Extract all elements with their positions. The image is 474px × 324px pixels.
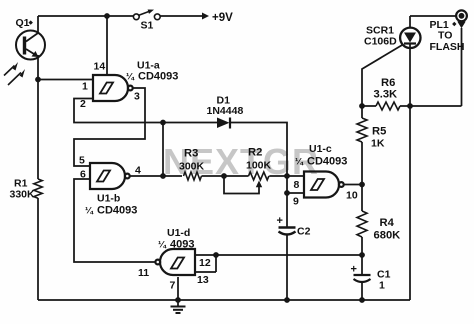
svg-text:11: 11 — [138, 267, 149, 279]
svg-text:1N4448: 1N4448 — [207, 105, 244, 117]
svg-text:¼: ¼ — [295, 157, 304, 168]
svg-text:3: 3 — [134, 91, 140, 103]
svg-text:R4: R4 — [380, 217, 395, 229]
svg-text:+9V: +9V — [212, 12, 233, 24]
svg-text:4093: 4093 — [170, 239, 194, 251]
svg-text:¼: ¼ — [158, 240, 167, 251]
svg-text:R3: R3 — [184, 148, 198, 160]
svg-text:9: 9 — [293, 196, 299, 208]
svg-text:1K: 1K — [371, 138, 385, 150]
svg-text:+: + — [277, 215, 283, 227]
svg-text:¼: ¼ — [126, 72, 135, 83]
svg-text:300K: 300K — [179, 161, 205, 173]
svg-text:14: 14 — [94, 61, 106, 73]
svg-text:TO: TO — [438, 30, 452, 42]
svg-text:6: 6 — [80, 169, 86, 181]
svg-text:+: + — [351, 264, 357, 276]
svg-text:330K: 330K — [10, 189, 36, 201]
svg-text:CD4093: CD4093 — [307, 156, 347, 168]
svg-text:U1-b: U1-b — [97, 193, 120, 205]
svg-text:¼: ¼ — [85, 206, 94, 217]
svg-text:100K: 100K — [246, 160, 272, 172]
svg-text:C2: C2 — [297, 226, 311, 238]
svg-text:12: 12 — [199, 257, 211, 269]
svg-text:CD4093: CD4093 — [138, 71, 178, 83]
svg-text:3.3K: 3.3K — [374, 89, 398, 101]
svg-text:1: 1 — [82, 81, 88, 93]
svg-text:U1-c: U1-c — [309, 143, 332, 155]
svg-text:5: 5 — [79, 155, 85, 167]
svg-text:R6: R6 — [381, 77, 395, 89]
svg-text:7: 7 — [170, 280, 176, 292]
svg-text:13: 13 — [197, 274, 209, 286]
svg-text:U1-d: U1-d — [167, 227, 190, 239]
svg-text:R5: R5 — [372, 126, 386, 138]
svg-text:S1: S1 — [141, 20, 154, 32]
svg-text:C106D: C106D — [364, 36, 397, 48]
svg-text:4: 4 — [135, 165, 141, 177]
svg-text:1: 1 — [379, 280, 385, 292]
svg-text:Q1: Q1 — [16, 17, 30, 29]
svg-text:2: 2 — [80, 98, 86, 110]
svg-text:10: 10 — [346, 190, 358, 202]
svg-text:R2: R2 — [248, 147, 262, 159]
svg-text:680K: 680K — [374, 230, 401, 242]
svg-text:FLASH: FLASH — [430, 41, 465, 53]
svg-text:8: 8 — [294, 179, 300, 191]
svg-text:CD4093: CD4093 — [97, 205, 137, 217]
